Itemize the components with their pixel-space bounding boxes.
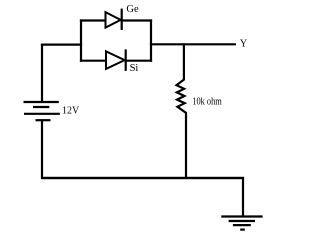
svg-text:10k ohm: 10k ohm <box>192 97 222 108</box>
svg-text:Si: Si <box>130 63 139 74</box>
svg-text:Y: Y <box>240 39 247 50</box>
svg-text:12V: 12V <box>62 105 80 116</box>
svg-text:Ge: Ge <box>126 4 139 15</box>
